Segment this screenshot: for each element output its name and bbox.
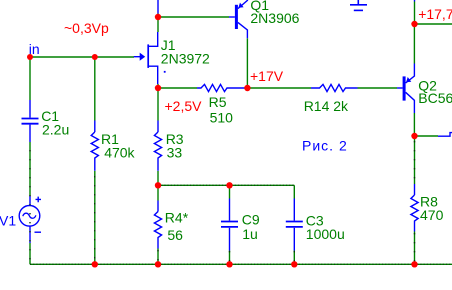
wire: R8 bottom to rail xyxy=(414,232,416,265)
wire: R3 column from source node xyxy=(157,88,159,121)
wire: J1 drain column cut lead at top edge xyxy=(157,0,159,14)
wire: output blue jog at right edge xyxy=(438,133,452,137)
wire: R4 top lead xyxy=(157,185,159,200)
wire: R1 column top xyxy=(94,57,96,121)
svg-text:470k: 470k xyxy=(104,144,135,160)
wire: C3 bottom to rail xyxy=(293,251,295,265)
wire: V1 bottom to ground rail xyxy=(29,243,31,264)
resistor R8 xyxy=(411,184,418,232)
wire: +17,7 node to right edge xyxy=(415,23,452,25)
wire: output node to right xyxy=(415,135,439,137)
wire: +17,7 node down to Q2 emitter xyxy=(413,24,415,64)
svg-text:2N3906: 2N3906 xyxy=(250,10,299,26)
svg-text:2.2u: 2.2u xyxy=(42,121,69,137)
resistor R1 xyxy=(91,121,98,171)
svg-text:~0,3Vp: ~0,3Vp xyxy=(64,20,109,36)
transistor Q2 xyxy=(403,76,406,100)
svg-text:56: 56 xyxy=(167,227,183,243)
wire: output node down to R8 xyxy=(414,139,416,184)
wire: dash texture on ground rail xyxy=(30,263,452,265)
Q2 emitter xyxy=(406,64,415,84)
wire: mid rail from R3/R4 node to C3 column xyxy=(158,184,294,186)
node J1 source / +2,5V xyxy=(155,85,161,91)
svg-text:470: 470 xyxy=(420,207,444,223)
resistor R3 xyxy=(154,121,161,171)
node rail C3 xyxy=(291,261,297,267)
wire: input row from node in to J1 gate xyxy=(30,56,134,58)
wire: C3 top lead xyxy=(293,185,295,198)
J1 gate arrowhead xyxy=(140,53,146,61)
svg-text:1000u: 1000u xyxy=(306,226,345,242)
node R1 top junction xyxy=(92,54,98,60)
svg-text:2N3972: 2N3972 xyxy=(161,50,210,66)
node rail R8 xyxy=(411,261,417,267)
wire: R5 right to +17V node to R14 xyxy=(247,87,311,89)
resistor R14 xyxy=(311,84,358,91)
resistor R4 xyxy=(154,201,161,249)
svg-text:R4*: R4* xyxy=(165,209,189,225)
svg-text:1u: 1u xyxy=(242,226,258,242)
wire: R4 bottom to rail xyxy=(157,249,159,265)
wire: supply column to +17,7 node xyxy=(414,2,416,25)
node +17,7V xyxy=(411,21,417,27)
sine source V1 xyxy=(19,196,41,243)
svg-text:+2,5V: +2,5V xyxy=(165,98,203,114)
svg-text:R14 2k: R14 2k xyxy=(304,98,349,114)
svg-text:R5: R5 xyxy=(209,94,227,110)
wire: dash texture on lower verticals xyxy=(30,141,415,264)
wire: R1 bottom to rail xyxy=(94,171,96,264)
wire: J1 source to node row xyxy=(157,84,159,88)
wire: +17.7V supply column cut lead at top edge xyxy=(414,0,416,2)
node rail C9 xyxy=(226,261,232,267)
capacitor C3 xyxy=(286,199,303,251)
Q1 emitter xyxy=(238,0,248,9)
wire: source node to R5 xyxy=(158,87,197,89)
svg-text:BC560: BC560 xyxy=(418,90,452,106)
ground xyxy=(350,0,367,10)
wire: R3 bottom to mid node xyxy=(157,171,159,186)
capacitor C9 xyxy=(221,199,238,251)
wire: input column down to C1 xyxy=(29,57,31,100)
node rail R1 xyxy=(92,261,98,267)
node +17V xyxy=(244,85,250,91)
Q1 collector xyxy=(238,22,248,38)
svg-text:V1: V1 xyxy=(0,212,16,228)
resistor R5 xyxy=(197,84,247,91)
Q2 collector xyxy=(406,92,415,113)
node J1 drain junction xyxy=(155,14,161,20)
node output xyxy=(411,133,417,139)
node mid rail R3/R4 xyxy=(155,182,161,188)
node rail R4 xyxy=(155,261,161,267)
svg-text:+17V: +17V xyxy=(250,68,284,84)
transistor Q1 xyxy=(235,5,238,29)
capacitor C1 xyxy=(22,100,39,142)
svg-text:510: 510 xyxy=(210,110,234,126)
node in xyxy=(27,54,33,60)
svg-text:+17,7V: +17,7V xyxy=(418,6,452,22)
wire: drain node to Q1 base xyxy=(158,16,229,18)
wire: C9 bottom to rail xyxy=(229,251,231,265)
svg-text:Рис. 2: Рис. 2 xyxy=(302,137,348,153)
JFET J1 xyxy=(134,32,158,84)
wire: R14 right to Q2 base xyxy=(358,87,398,89)
wire: C9 top lead xyxy=(229,185,231,198)
node mid rail C9 xyxy=(226,182,232,188)
wire: dash texture on mid rail xyxy=(158,184,294,186)
svg-text:33: 33 xyxy=(167,144,183,160)
wire: drain node down to J1 drain xyxy=(157,14,159,33)
wire: Q1 collector down to +17V node xyxy=(246,38,248,88)
wire: C1 bottom to V1 top xyxy=(29,142,31,196)
stray dot label next to J1 xyxy=(164,71,166,73)
wire: Q2 collector to output node xyxy=(413,113,415,136)
wire: bottom ground rail xyxy=(30,263,452,265)
